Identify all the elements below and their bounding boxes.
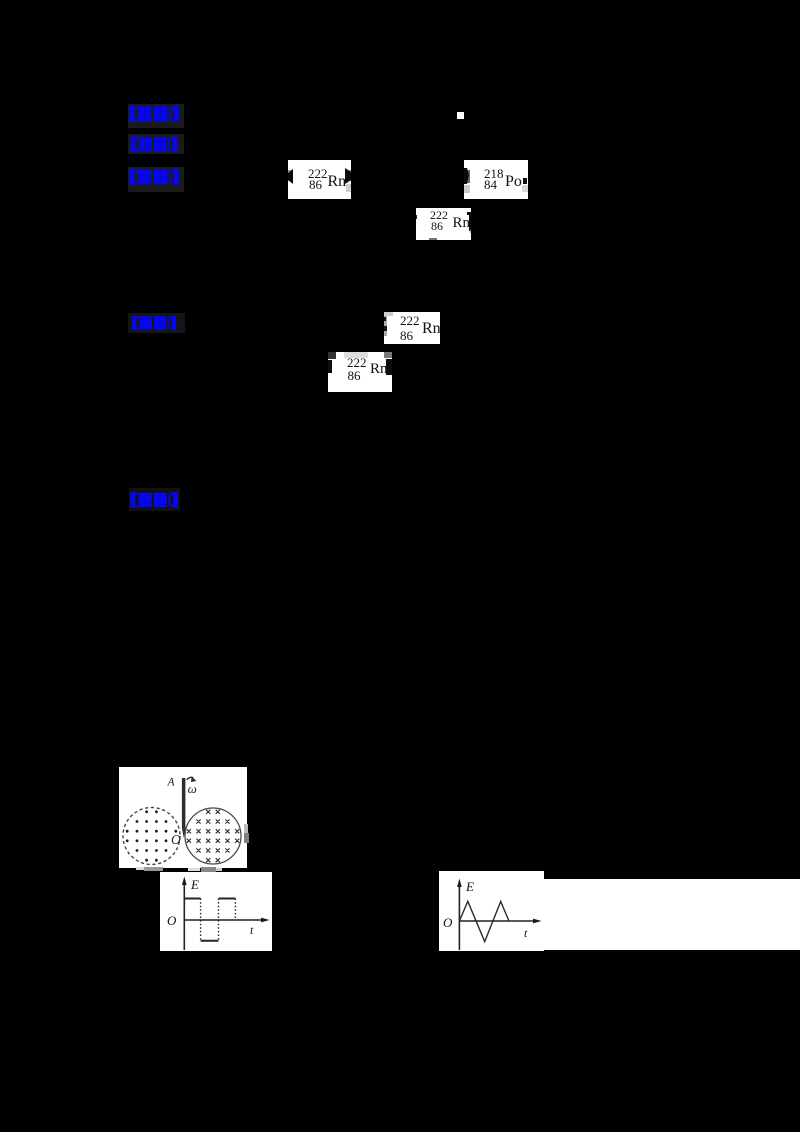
gray blocks right of figure bbox=[244, 824, 248, 833]
square wave bbox=[184, 899, 235, 941]
x axis bbox=[459, 920, 535, 922]
formula image 2: 218/84 Po bbox=[464, 160, 528, 199]
formula image 5: 222/86 Rn bbox=[328, 352, 392, 392]
svg-text:O: O bbox=[167, 913, 177, 928]
svg-text:O: O bbox=[171, 832, 181, 847]
y axis bbox=[183, 883, 185, 950]
svg-text:ω: ω bbox=[188, 781, 197, 796]
dots grid bbox=[126, 810, 177, 861]
svg-text:E: E bbox=[190, 877, 199, 892]
white strip across right bbox=[544, 879, 800, 950]
section label zhuanti (blue) bbox=[128, 134, 184, 154]
omega with curved arrow bbox=[187, 777, 194, 779]
graph: square-wave E(t) bbox=[160, 872, 272, 951]
rod A bbox=[182, 778, 186, 838]
svg-text:E: E bbox=[465, 879, 474, 894]
section label jieda (blue) bbox=[128, 313, 185, 333]
y axis bbox=[458, 885, 460, 950]
x axis bbox=[184, 919, 263, 921]
svg-text:A: A bbox=[167, 777, 176, 789]
gray smudges under figure bbox=[136, 867, 144, 870]
formula image 3: 222/86 Rn bbox=[416, 208, 471, 240]
section label fenxi (blue) bbox=[128, 167, 184, 192]
svg-text:O: O bbox=[443, 915, 453, 930]
section label dianping (blue) bbox=[129, 488, 180, 511]
solid circle with crosses (B into page) bbox=[185, 808, 241, 864]
triangle wave bbox=[459, 901, 509, 941]
formula image 4: 222/86 Rn bbox=[384, 312, 440, 344]
formula image 1: 222/86 Rn bbox=[288, 160, 351, 199]
dashed circle with dots (B out of page) bbox=[123, 808, 180, 865]
section label kaodian (blue) bbox=[128, 104, 184, 128]
figure: rotating rod over two field circles bbox=[119, 767, 247, 868]
small white dot (punctuation on dark) bbox=[457, 112, 464, 119]
graph: triangle-wave E(t) bbox=[439, 871, 544, 951]
